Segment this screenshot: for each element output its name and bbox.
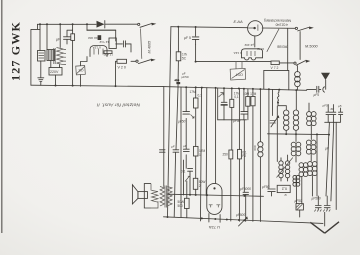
resistor V20 [117, 59, 127, 63]
wire R10 chain below bus [174, 88, 178, 217]
capacitor Cf 0,1 [188, 169, 193, 175]
wire [86, 24, 88, 30]
svg-text:0,1: 0,1 [181, 169, 186, 173]
shield frame box [264, 70, 289, 90]
svg-text:0,1: 0,1 [234, 95, 239, 99]
svg-text:µF500: µF500 [312, 196, 321, 200]
svg-text:U 72A: U 72A [209, 225, 220, 230]
svg-text:µ5: µ5 [338, 104, 342, 108]
mixer tube U2 envelope [242, 49, 263, 58]
vertical v7 [180, 87, 182, 217]
wire bottom power bus [31, 85, 163, 86]
resistor R6 [229, 150, 233, 159]
svg-text:OST: OST [235, 73, 243, 77]
svg-text:M.5000: M.5000 [305, 45, 319, 49]
svg-text:µF5: µF5 [314, 93, 320, 97]
wire top bus power [38, 23, 97, 25]
vertical v8 with caps [186, 87, 190, 194]
wire left main drop [168, 27, 171, 217]
diode D1 [97, 21, 105, 28]
capacitor Ca [183, 112, 190, 115]
svg-text:127 GWK: 127 GWK [9, 21, 23, 81]
wire main top bus [171, 27, 248, 28]
resistor R4 [247, 89, 249, 97]
connecting slant wire between switch blades [141, 29, 142, 59]
coil L1 [296, 66, 298, 72]
node [46, 23, 48, 25]
node [39, 23, 41, 25]
vertical v26 + trimmer arrow [272, 89, 274, 115]
box 0,2 [277, 185, 290, 192]
IF coil L2 [284, 110, 289, 130]
ground G1 [38, 61, 44, 85]
svg-text:µF50: µF50 [295, 199, 303, 203]
svg-text:µF5000: µF5000 [240, 187, 251, 191]
speaker bracket [144, 184, 151, 208]
diagonal dial pointer [267, 29, 279, 52]
wire [39, 24, 41, 50]
wire left stub and drop [31, 24, 40, 85]
switch S2 lower [136, 60, 138, 62]
bottom right electrolytic caps [315, 196, 321, 210]
stubs from OST to tube2 [236, 62, 242, 69]
svg-text:6F: 6F [331, 107, 335, 111]
wire jog line right [325, 121, 340, 123]
svg-text:000: 000 [253, 145, 257, 150]
svg-text:µF 402: µF 402 [244, 43, 254, 47]
svg-text:µF 5: µF 5 [184, 36, 191, 40]
switch S1 upper [138, 23, 140, 25]
svg-text:M.4005: M.4005 [148, 40, 152, 54]
output transformer windings [160, 187, 165, 206]
svg-text:V 7 2: V 7 2 [271, 66, 279, 70]
transformer T1 primary box [47, 50, 55, 61]
IF coil L3 [295, 90, 297, 110]
cap box Cp [296, 204, 303, 210]
svg-text:250: 250 [223, 153, 229, 157]
vertical v27 [276, 106, 278, 162]
svg-text:E.AA: E.AA [234, 19, 243, 24]
resistor small horiz [104, 51, 112, 54]
node [72, 23, 74, 25]
svg-text:0,2: 0,2 [282, 187, 287, 191]
svg-text:JR3 BB: JR3 BB [277, 45, 288, 49]
wire H5 [218, 119, 247, 121]
transformer core [54, 48, 55, 64]
capacitor Ce [183, 149, 189, 151]
coil pair L9 [299, 163, 308, 177]
wire [46, 24, 48, 49]
wire [59, 24, 61, 47]
capacitor small left [160, 150, 166, 152]
small pot arrow near speaker [185, 175, 190, 182]
svg-text:µF50: µF50 [178, 120, 186, 124]
long wire y134 [268, 133, 329, 136]
capacitor Cb + chain v19 [241, 89, 247, 120]
wire drops top right [287, 28, 289, 70]
svg-text:µF50: µF50 [233, 119, 241, 123]
vertical v14 [217, 88, 219, 120]
speaker cone [132, 185, 138, 204]
svg-text:U 12A: U 12A [93, 45, 101, 49]
svg-text:500: 500 [178, 204, 184, 208]
coil pair L8 [306, 140, 316, 154]
svg-text:10M 17M: 10M 17M [243, 92, 257, 96]
vertical v13 tube lead [215, 88, 217, 183]
volume arrow at bottom [239, 218, 247, 226]
svg-text:220V: 220V [50, 70, 59, 74]
socket box [109, 38, 116, 49]
svg-text:5C: 5C [182, 57, 187, 61]
svg-text:µF: µF [171, 145, 175, 149]
svg-text:µ4U 402: µ4U 402 [88, 36, 100, 40]
wire second bus [87, 29, 116, 31]
coil pair small lower [293, 175, 300, 186]
vertical v10 [201, 88, 202, 221]
svg-text:µF50: µF50 [262, 185, 270, 189]
fuse on wire [71, 34, 75, 41]
coil pair L4/L5 [308, 103, 310, 112]
main horizontal bus H3 [163, 87, 307, 91]
box B3 220V [49, 68, 62, 76]
svg-text:12 Y12: 12 Y12 [99, 40, 109, 44]
output transformer right side [279, 161, 290, 178]
wire [80, 75, 82, 87]
resistor R9 50W500 [186, 181, 188, 198]
wire H8 [167, 194, 263, 196]
bottom bus H7 [164, 217, 324, 224]
wire H4 [196, 61, 271, 63]
svg-text:V 2 0: V 2 0 [118, 66, 126, 70]
svg-text:µF: µF [183, 144, 187, 148]
wire [72, 24, 74, 34]
svg-text:µF5: µF5 [323, 104, 329, 108]
output tube U3 [207, 183, 222, 214]
book gutter edge line [1, 0, 3, 233]
dark electrode blob [98, 35, 102, 40]
junction dot on R10 chain [177, 79, 179, 81]
node [59, 23, 61, 25]
vertical v25 + cap Ch [268, 89, 275, 196]
coil pair L10 [308, 162, 318, 176]
magic eye tube circle [248, 21, 263, 36]
svg-text:4 021/40: 4 021/40 [275, 22, 288, 26]
small capacitor far right [339, 108, 343, 122]
resistor R10 17k [177, 27, 179, 52]
vertical v11 [205, 88, 208, 196]
capacitor Cg [243, 192, 249, 221]
coil pair L6/L7 [291, 142, 301, 156]
antenna coupling capacitor [307, 86, 321, 92]
transformer T1 secondary winding [57, 48, 64, 65]
resistor P72 [271, 61, 279, 65]
chassis V arrow [310, 222, 324, 233]
OST box 1 [230, 68, 246, 80]
svg-text:Mehrbereichsklang: Mehrbereichsklang [264, 18, 291, 22]
variable capacitor Cc [221, 88, 227, 120]
capacitor C_p2 [116, 37, 131, 52]
vertical v23 + coil L11 [259, 89, 261, 141]
field coil zigzag [152, 190, 159, 202]
resistor R3 [231, 88, 233, 99]
rectifier tube U_rect [90, 46, 107, 57]
wire [87, 30, 116, 37]
vertical v1 [163, 87, 165, 187]
capacitor C_p1 [64, 30, 73, 44]
chassis tick [176, 82, 180, 84]
OST box 2 [76, 65, 86, 74]
svg-text:Netzteil für Ausf. II: Netzteil für Ausf. II [96, 103, 140, 108]
lower right verticals [326, 122, 329, 196]
mains box B1 [38, 51, 46, 62]
vertical v18 + R7 [238, 89, 240, 150]
bus dots [185, 86, 187, 88]
capacitor Cd [173, 150, 179, 152]
antenna symbol [321, 73, 330, 80]
wire [183, 160, 185, 195]
svg-text:µF50: µF50 [182, 75, 189, 79]
svg-text:/2: /2 [284, 193, 287, 197]
svg-text:µF500: µF500 [236, 213, 245, 217]
switch S3 top right [295, 27, 297, 29]
capacitor C_i top [192, 27, 199, 44]
svg-text:1042: 1042 [257, 47, 264, 51]
switch S4 [294, 62, 296, 64]
node [86, 23, 88, 25]
svg-text:U 12A: U 12A [234, 51, 242, 55]
resistor R5 [252, 89, 254, 97]
choke squiggle [278, 90, 279, 103]
small caps Cm pair [326, 105, 331, 123]
chain v9: resistors R2,R8,R1 [195, 87, 197, 98]
svg-text:OS: OS [78, 68, 84, 72]
svg-text:17M: 17M [190, 90, 197, 94]
svg-text:17 40F: 17 40F [103, 53, 113, 57]
